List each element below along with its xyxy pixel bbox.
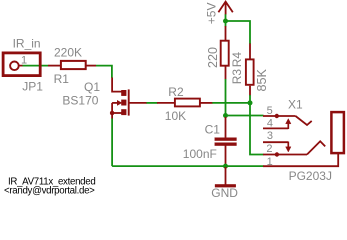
svg-text:+5V: +5V bbox=[204, 3, 218, 25]
junction R2/R4 node bbox=[248, 100, 253, 105]
svg-text:BS170: BS170 bbox=[62, 94, 98, 108]
supply symbol +5V bbox=[218, 2, 232, 15]
wire node down to X1 pin 2 bbox=[250, 103, 264, 155]
X1 pin 4 line bbox=[263, 127, 288, 129]
wire +5V branch to R4 bbox=[226, 21, 251, 44]
svg-text:R2: R2 bbox=[168, 85, 184, 99]
svg-text:5: 5 bbox=[267, 105, 273, 117]
X1 pin 5 junction dot bbox=[275, 114, 279, 118]
capacitor C1 bbox=[215, 117, 237, 165]
svg-text:1: 1 bbox=[21, 55, 27, 67]
svg-text:85K: 85K bbox=[255, 68, 269, 91]
junction at +5V bbox=[223, 19, 228, 24]
resistor R2 bbox=[157, 99, 213, 107]
svg-text:4: 4 bbox=[267, 117, 273, 129]
X1 pin 3 line bbox=[263, 141, 288, 143]
svg-text:3: 3 bbox=[267, 130, 273, 142]
svg-text:R4: R4 bbox=[230, 52, 244, 68]
svg-text:PG203J: PG203J bbox=[289, 169, 332, 183]
wire R4 bottom to node bbox=[249, 95, 251, 103]
wire R2 to node at R4 bbox=[212, 102, 250, 104]
svg-text:IR_in: IR_in bbox=[13, 37, 41, 51]
resistor R1 bbox=[48, 61, 96, 69]
svg-text:<randy@vdrportal.de>: <randy@vdrportal.de> bbox=[4, 186, 95, 197]
GND rail wire bbox=[112, 165, 263, 167]
svg-text:X1: X1 bbox=[288, 98, 303, 112]
svg-text:C1: C1 bbox=[205, 122, 221, 136]
wire JP1 to R1 bbox=[19, 65, 23, 67]
X1 sleeve body bbox=[331, 112, 344, 153]
X1 pin 1 line to sleeve bbox=[263, 154, 338, 166]
svg-text:220: 220 bbox=[206, 47, 220, 68]
resistor R4 bbox=[246, 44, 254, 96]
wire Q1 gate to R2 bbox=[147, 102, 158, 104]
svg-text:GND: GND bbox=[211, 186, 238, 200]
X1 switch arrow down bbox=[286, 142, 291, 152]
X1 pin 2 junction dot bbox=[275, 152, 279, 156]
wire +5V vertical bbox=[225, 14, 227, 26]
junction VCC node at C1 bbox=[223, 113, 228, 118]
junction C1/GND rail bbox=[223, 164, 228, 169]
X1 pin 4 switch arrow up bbox=[286, 119, 291, 129]
svg-text:2: 2 bbox=[266, 143, 272, 155]
wire VCC node to X1 pin 5 bbox=[226, 115, 264, 117]
svg-text:R3: R3 bbox=[230, 69, 244, 85]
ground symbol GND bbox=[215, 167, 236, 187]
resistor R3 bbox=[221, 26, 229, 79]
svg-text:1: 1 bbox=[267, 156, 273, 168]
svg-text:10K: 10K bbox=[165, 109, 186, 123]
svg-text:100nF: 100nF bbox=[183, 147, 217, 161]
transistor Q1 BS170 bbox=[110, 78, 147, 119]
wire R3 bottom to VCC node bbox=[225, 79, 227, 116]
svg-text:R1: R1 bbox=[54, 72, 70, 86]
svg-text:220K: 220K bbox=[54, 46, 82, 60]
wire Q1 source to GND rail bbox=[111, 119, 113, 167]
connector JP1 bbox=[3, 53, 40, 76]
svg-text:JP1: JP1 bbox=[22, 80, 43, 94]
X1 pin 5 line with switch contact bbox=[263, 116, 312, 125]
wire R1 to Q1 drain bbox=[96, 66, 112, 78]
svg-text:Q1: Q1 bbox=[84, 80, 100, 94]
X1 pin 2 line with switch contact bbox=[263, 141, 325, 154]
